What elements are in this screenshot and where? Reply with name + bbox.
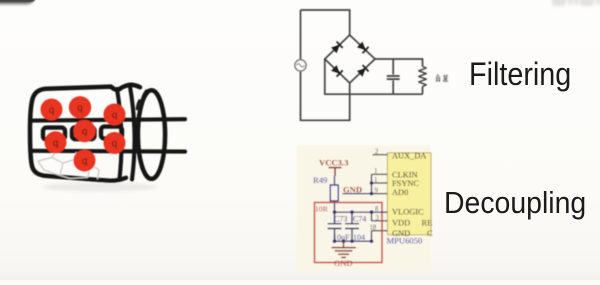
IC MPU6050 body — [387, 153, 431, 235]
ground symbol — [332, 241, 356, 257]
wire: source top — [300, 10, 302, 60]
svg-text:q: q — [112, 110, 118, 121]
pin stubs — [372, 155, 388, 231]
svg-text:q: q — [77, 103, 83, 114]
pin 1 CLKIN stub — [372, 173, 388, 175]
svg-text:q: q — [82, 127, 88, 138]
svg-text:C73: C73 — [334, 215, 347, 224]
diode D2 (top-right edge) — [357, 41, 369, 53]
pin numbers — [370, 148, 380, 231]
wire VCC to R49 — [334, 176, 336, 185]
load resistor zigzag — [419, 67, 427, 87]
svg-text:q: q — [82, 156, 88, 167]
decoupling bottom rail — [335, 240, 372, 242]
red annotation box — [315, 203, 383, 263]
wire: bridge right vertex to load top — [375, 59, 423, 67]
end cap ellipse — [138, 90, 165, 179]
capacitor C73 — [328, 212, 342, 241]
wire: filter cap stubs — [392, 59, 394, 94]
svg-text:10R: 10R — [315, 204, 329, 213]
charge carrier q7 — [74, 150, 96, 172]
pin AUX_DA stub — [373, 154, 388, 156]
svg-text:2: 2 — [375, 148, 379, 155]
svg-text:C: C — [427, 229, 433, 238]
capacitor top edge with crimp dip — [46, 85, 140, 90]
wire: top rail from source to bridge top — [301, 10, 350, 35]
svg-text:RE: RE — [422, 218, 433, 227]
decoupling top rail (to pin 8) — [335, 211, 388, 213]
schematic cream background — [297, 146, 432, 271]
plate line top (becomes top lead) — [33, 119, 185, 120]
svg-text:18: 18 — [370, 225, 377, 232]
svg-text:R49: R49 — [313, 175, 327, 185]
resistor R49 body — [330, 185, 338, 201]
svg-text:q: q — [49, 105, 55, 116]
diode D3 (left-bottom edge) — [331, 65, 343, 77]
svg-text:C74: C74 — [353, 215, 366, 224]
capacitor body outline — [30, 89, 126, 181]
wire GND net to AD0 pin — [343, 193, 372, 195]
AC source V — [295, 60, 306, 71]
crimp seam arcs — [117, 89, 122, 179]
bilibili watermark (top-right, cut off) — [552, 0, 600, 6]
wire rail to VDD pin 3 — [371, 212, 373, 221]
svg-text:1: 1 — [374, 177, 377, 184]
diode D4 (bottom-right edge) — [357, 65, 369, 77]
svg-text:VDD: VDD — [392, 218, 410, 227]
svg-text:GND: GND — [334, 258, 353, 268]
heading Decoupling — [444, 187, 586, 218]
charge carrier q5 — [73, 120, 95, 142]
video-player corner chrome (top-left) — [0, 0, 34, 4]
wire: bridge left vertex down to negative rail — [325, 59, 423, 94]
wire: source bottom return — [301, 71, 350, 120]
svg-text:AD0: AD0 — [392, 188, 408, 197]
pin 1 FSYNC stub — [372, 182, 388, 184]
charge carrier q3 — [104, 104, 126, 126]
diode bridge diamond — [325, 35, 375, 83]
pin 18 GND stub — [372, 230, 388, 232]
svg-text:104: 104 — [353, 233, 365, 242]
charge carrier q2 — [69, 96, 91, 118]
svg-text:1: 1 — [374, 168, 377, 175]
charge carrier q1 — [41, 99, 63, 121]
filter capacitor plates — [387, 76, 400, 79]
crack lines in dielectric — [38, 151, 99, 180]
heading Filtering — [469, 58, 571, 91]
svg-text:GND: GND — [343, 184, 362, 194]
pin 8 VLOGIC stub — [382, 211, 387, 213]
dielectric brick 1 — [43, 128, 65, 140]
svg-text:VCC3.3: VCC3.3 — [319, 158, 348, 168]
svg-text:3: 3 — [376, 215, 380, 222]
end cap highlight curls — [142, 91, 147, 103]
wire tie CLKIN/FSYNC/AD0 — [371, 174, 373, 193]
svg-text:MPU6050: MPU6050 — [387, 236, 423, 246]
diode D1 (left-top edge) — [331, 42, 343, 54]
plate line bottom (becomes bottom lead) — [31, 149, 185, 154]
svg-text:q: q — [53, 138, 59, 149]
charge carrier q6 — [104, 132, 126, 154]
pin 9 AD0 stub — [372, 193, 388, 195]
svg-text:9: 9 — [375, 187, 379, 194]
charge carrier q4 — [45, 131, 67, 153]
label 负载 (load) — [436, 74, 448, 81]
wire: load bottom stub — [422, 87, 424, 95]
wire R49 to decoupling rail — [334, 201, 336, 212]
svg-text:q: q — [112, 139, 118, 150]
capacitor body shadow — [42, 183, 158, 192]
IC pin names — [392, 152, 433, 239]
svg-text:VLOGIC: VLOGIC — [392, 208, 424, 217]
dielectric brick 2 — [72, 127, 95, 139]
pin 3 VDD stub — [372, 220, 388, 222]
capacitor C74 — [345, 212, 359, 241]
wire pin 18 down to bottom rail — [371, 231, 373, 242]
svg-text:AUX_DA: AUX_DA — [392, 152, 426, 161]
dielectric brick 3 — [101, 127, 122, 139]
